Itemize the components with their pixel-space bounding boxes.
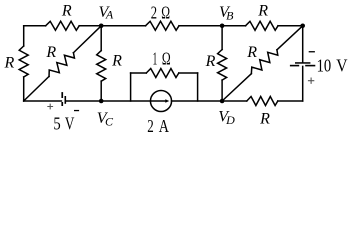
svg-text:V: V xyxy=(65,113,75,133)
node B dot xyxy=(220,24,225,29)
wire top-left xyxy=(24,25,46,27)
wire top right xyxy=(278,25,303,27)
wire bridge top left xyxy=(131,72,147,74)
wire left lower xyxy=(23,77,25,101)
wire bridge top right xyxy=(179,72,198,74)
wire top mid-right xyxy=(179,25,246,27)
wire left diagonal upper xyxy=(73,26,101,53)
wire right lower xyxy=(302,66,304,101)
wire left diagonal lower xyxy=(24,76,49,101)
resistor R (below node B) xyxy=(218,50,227,81)
wire node A upper xyxy=(100,26,102,51)
wire right upper xyxy=(302,26,304,62)
resistor R (bottom) xyxy=(247,97,278,106)
svg-text:Ω: Ω xyxy=(162,48,171,68)
wire bottom right-of-circle xyxy=(172,100,247,102)
svg-text:R: R xyxy=(246,44,257,61)
svg-text:R: R xyxy=(45,44,56,61)
svg-text:R: R xyxy=(4,54,15,71)
svg-text:R: R xyxy=(111,52,122,69)
svg-text:1: 1 xyxy=(153,48,158,68)
wire right diagonal upper xyxy=(277,26,303,50)
wire node B lower xyxy=(221,80,223,101)
wire node B upper xyxy=(221,26,223,50)
wire bridge left leg xyxy=(130,73,132,101)
svg-text:R: R xyxy=(257,3,268,20)
current source 2A circle xyxy=(150,90,171,111)
svg-text:A: A xyxy=(105,8,114,22)
label + (5V) xyxy=(47,104,53,110)
wire bottom left-of-circle xyxy=(66,100,150,102)
wire left upper xyxy=(23,26,25,46)
wire right diagonal lower xyxy=(222,74,251,101)
label - (10V) xyxy=(309,51,315,52)
wire bottom far-left xyxy=(24,100,62,102)
battery 5V short plate xyxy=(65,96,67,104)
resistor R (left) xyxy=(19,46,28,77)
svg-text:D: D xyxy=(225,113,235,127)
node A dot xyxy=(99,24,104,29)
battery 10V short plate xyxy=(295,62,310,64)
svg-text:V: V xyxy=(336,56,348,76)
resistor R (top right) xyxy=(246,21,279,30)
svg-text:Ω: Ω xyxy=(161,3,170,23)
wire bottom far-right xyxy=(278,100,303,102)
label - (5V) xyxy=(74,110,79,111)
svg-text:10: 10 xyxy=(317,56,332,76)
svg-text:5: 5 xyxy=(53,113,61,133)
resistor R (right diagonal) xyxy=(251,50,277,74)
resistor R (below node A) xyxy=(97,51,106,82)
node C dot xyxy=(99,99,104,104)
current source arrow xyxy=(151,100,165,102)
resistor R (top left) xyxy=(46,21,80,30)
svg-text:R: R xyxy=(61,2,72,19)
svg-text:2: 2 xyxy=(151,3,157,23)
wire top mid-left xyxy=(79,25,145,27)
label + (10V) xyxy=(308,78,314,84)
resistor R (left diagonal) xyxy=(49,53,74,77)
battery 5V long plate xyxy=(61,92,63,98)
svg-text:C: C xyxy=(105,114,114,128)
node top-right dot xyxy=(300,24,305,29)
battery 10V long plate xyxy=(290,65,299,67)
svg-text:R: R xyxy=(259,111,270,128)
resistor 1 ohm xyxy=(146,69,179,78)
svg-text:R: R xyxy=(205,53,216,70)
wire node A lower xyxy=(100,81,102,101)
svg-text:A: A xyxy=(159,116,169,136)
resistor 2 ohm xyxy=(146,21,180,30)
wire bridge right leg xyxy=(197,73,199,101)
svg-text:2: 2 xyxy=(147,116,154,136)
svg-text:B: B xyxy=(226,9,234,23)
node D dot xyxy=(220,99,225,104)
